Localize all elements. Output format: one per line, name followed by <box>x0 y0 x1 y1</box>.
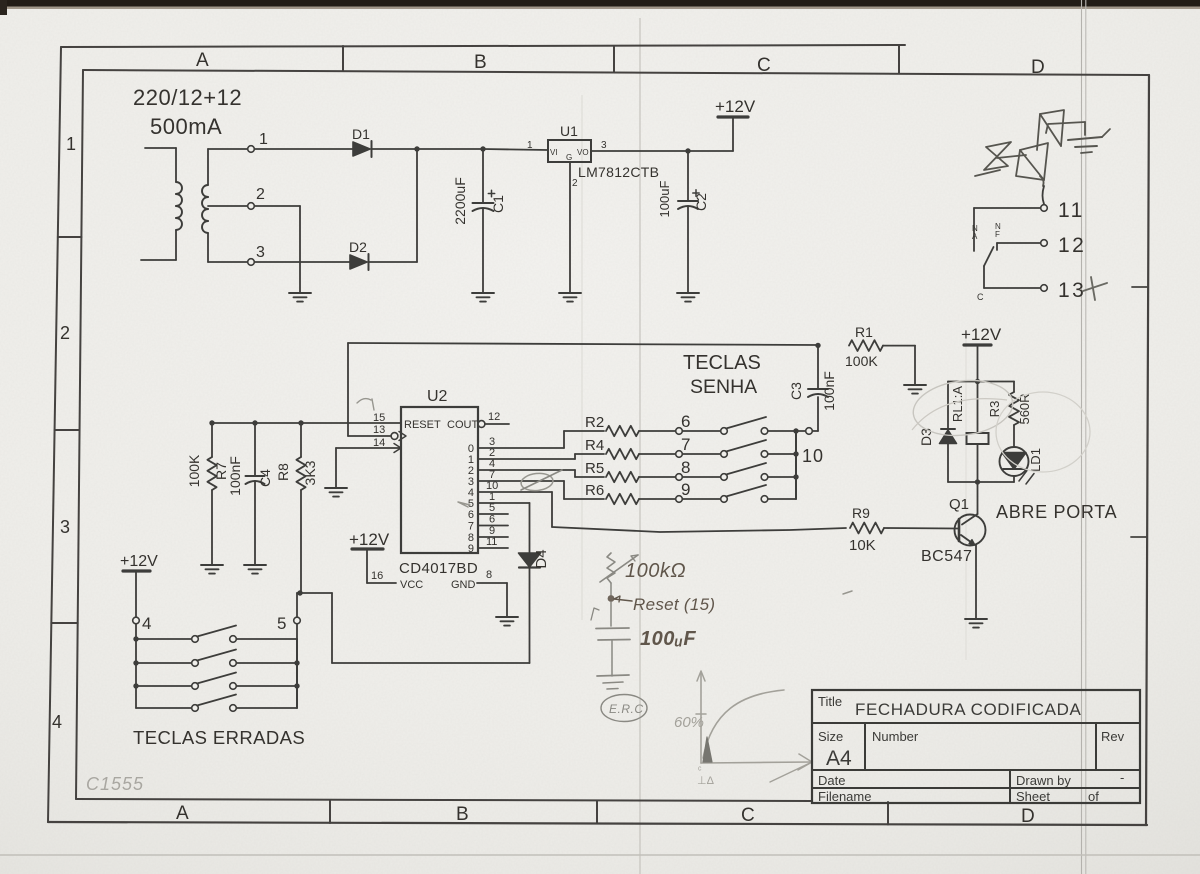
svg-text:R8: R8 <box>275 463 291 481</box>
svg-text:Rev: Rev <box>1101 729 1125 744</box>
svg-text:C1555: C1555 <box>86 774 144 794</box>
svg-text:COUT: COUT <box>447 419 478 431</box>
svg-text:8: 8 <box>681 458 690 477</box>
svg-text:60%: 60% <box>674 714 704 731</box>
svg-text:Drawn by: Drawn by <box>1016 773 1071 788</box>
svg-text:TECLAS ERRADAS: TECLAS ERRADAS <box>133 727 305 748</box>
svg-text:500mA: 500mA <box>150 114 222 139</box>
svg-text:7: 7 <box>681 435 690 454</box>
svg-text:U1: U1 <box>560 123 578 139</box>
svg-text:C2: C2 <box>693 193 709 211</box>
svg-text:14: 14 <box>373 437 385 449</box>
svg-text:R4: R4 <box>585 437 604 454</box>
svg-text:Size: Size <box>818 729 843 744</box>
svg-text:10: 10 <box>802 446 824 466</box>
svg-text:B: B <box>456 804 469 825</box>
svg-text:D: D <box>1031 57 1045 78</box>
svg-text:Filename: Filename <box>818 789 871 804</box>
svg-text:3: 3 <box>60 517 70 537</box>
svg-text:D3: D3 <box>918 428 934 446</box>
svg-text:FECHADURA CODIFICADA: FECHADURA CODIFICADA <box>855 700 1081 719</box>
svg-text:13: 13 <box>1058 279 1086 302</box>
svg-text:LD1: LD1 <box>1028 448 1043 472</box>
svg-text:4: 4 <box>142 614 151 633</box>
svg-text:2200uF: 2200uF <box>452 177 468 224</box>
svg-text:6: 6 <box>681 412 690 431</box>
svg-text:100ᵤF: 100ᵤF <box>640 628 696 650</box>
svg-text:100K: 100K <box>186 454 202 487</box>
svg-text:R1: R1 <box>855 324 873 340</box>
svg-text:A4: A4 <box>826 747 852 770</box>
svg-text:220/12+12: 220/12+12 <box>133 85 242 110</box>
svg-text:3K3: 3K3 <box>302 460 318 485</box>
svg-text:C: C <box>977 292 984 302</box>
svg-text:9: 9 <box>468 543 474 555</box>
svg-text:9: 9 <box>681 480 690 499</box>
svg-text:100nF: 100nF <box>227 456 243 496</box>
svg-text:R2: R2 <box>585 414 604 431</box>
svg-text:Q1: Q1 <box>949 496 969 513</box>
svg-text:Number: Number <box>872 729 919 744</box>
svg-text:R5: R5 <box>585 460 604 477</box>
svg-text:560R: 560R <box>1017 393 1032 424</box>
svg-text:RL1:A: RL1:A <box>950 386 965 422</box>
svg-text:A: A <box>196 50 209 71</box>
svg-text:13: 13 <box>373 424 385 436</box>
svg-text:B: B <box>474 52 487 73</box>
svg-text:C1: C1 <box>490 195 506 213</box>
svg-text:TECLAS: TECLAS <box>683 352 761 374</box>
svg-text:A: A <box>176 803 189 824</box>
svg-text:R6: R6 <box>585 482 604 499</box>
svg-text:1: 1 <box>66 134 76 154</box>
svg-text:2: 2 <box>60 323 70 343</box>
svg-text:LM7812CTB: LM7812CTB <box>578 164 659 180</box>
svg-text:E.R.C: E.R.C <box>609 702 644 716</box>
svg-text:C: C <box>757 55 771 76</box>
svg-text:CD4017BD: CD4017BD <box>399 560 478 577</box>
svg-text:10K: 10K <box>849 537 876 554</box>
svg-text:RESET: RESET <box>404 419 441 431</box>
svg-text:6: 6 <box>468 509 474 521</box>
svg-text:GND: GND <box>451 579 476 591</box>
svg-text:8: 8 <box>486 569 492 581</box>
svg-text:C: C <box>741 805 755 826</box>
svg-text:VO: VO <box>577 148 589 157</box>
svg-text:D2: D2 <box>349 239 367 255</box>
svg-text:-: - <box>1120 770 1124 785</box>
svg-text:C4: C4 <box>257 469 273 487</box>
svg-text:D4: D4 <box>533 549 550 568</box>
svg-text:R9: R9 <box>852 505 870 521</box>
svg-text:3: 3 <box>256 244 265 261</box>
svg-text:VI: VI <box>550 148 558 157</box>
svg-text:15: 15 <box>373 412 385 424</box>
svg-text:1: 1 <box>259 131 268 148</box>
svg-text:VCC: VCC <box>400 579 423 591</box>
svg-text:Title: Title <box>818 694 842 709</box>
svg-text:F: F <box>995 230 1000 239</box>
svg-text:3: 3 <box>601 140 607 151</box>
svg-text:⊥Δ: ⊥Δ <box>697 775 715 787</box>
svg-text:ABRE PORTA: ABRE PORTA <box>996 502 1117 522</box>
svg-text:12: 12 <box>1058 234 1086 257</box>
svg-text:U2: U2 <box>427 388 448 405</box>
svg-text:100kΩ: 100kΩ <box>625 560 686 582</box>
svg-text:100uF: 100uF <box>657 181 672 218</box>
svg-text:C3: C3 <box>788 382 804 400</box>
svg-text:SENHA: SENHA <box>690 376 757 398</box>
svg-text:5: 5 <box>277 614 286 633</box>
svg-text:100nF: 100nF <box>821 371 837 411</box>
svg-text:+12V: +12V <box>349 530 390 549</box>
svg-text:G: G <box>566 153 572 162</box>
svg-text:BC547: BC547 <box>921 548 972 565</box>
svg-text:of: of <box>1088 789 1099 804</box>
svg-text:2: 2 <box>256 186 265 203</box>
svg-text:12: 12 <box>488 411 500 423</box>
svg-text:Reset (15): Reset (15) <box>633 595 715 614</box>
svg-text:+12V: +12V <box>120 553 158 570</box>
svg-text:6: 6 <box>489 514 495 526</box>
svg-text:+12V: +12V <box>715 97 756 116</box>
svg-text:11: 11 <box>1058 199 1085 222</box>
svg-text:A: A <box>972 232 978 241</box>
svg-text:1: 1 <box>527 140 533 151</box>
svg-text:4: 4 <box>52 712 62 732</box>
svg-text:D: D <box>1021 806 1035 827</box>
svg-text:16: 16 <box>371 570 383 582</box>
svg-text:Sheet: Sheet <box>1016 789 1050 804</box>
svg-text:+12V: +12V <box>961 325 1002 344</box>
svg-text:D1: D1 <box>352 126 370 142</box>
svg-text:100K: 100K <box>845 353 878 369</box>
svg-text:7: 7 <box>468 521 474 533</box>
svg-text:Date: Date <box>818 773 845 788</box>
